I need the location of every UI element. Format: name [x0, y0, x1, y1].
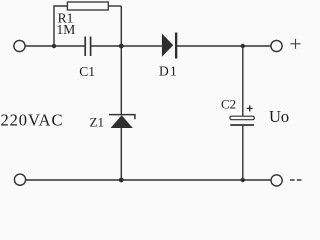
terminal output plus	[271, 40, 282, 51]
junction node output top	[241, 44, 245, 48]
wire vertical output node lower (C2 to bottom rail)	[242, 126, 244, 180]
junction node B (C1 right / zener top)	[119, 44, 124, 49]
junction node A (R1/C1 left)	[52, 44, 56, 48]
junction node B bottom rail	[119, 178, 124, 183]
wire vertical node B upper (loop to zener)	[120, 6, 122, 114]
svg-text:C1: C1	[79, 64, 95, 79]
svg-text:C2: C2	[221, 97, 236, 112]
terminal input top	[14, 40, 25, 51]
svg-text:D1: D1	[159, 64, 178, 79]
diode D1	[162, 33, 177, 59]
wire between C1 and D1	[91, 45, 162, 47]
svg-text:Z1: Z1	[90, 114, 104, 129]
terminal input bottom	[14, 174, 25, 185]
zener diode Z1	[109, 115, 135, 128]
wire vertical node B lower (zener to bottom rail)	[120, 128, 122, 180]
junction node output bottom rail	[241, 178, 245, 182]
resistor R1	[67, 2, 108, 10]
svg-text:Uo: Uo	[269, 107, 289, 126]
wire bottom rail	[26, 179, 271, 181]
wire vertical output node upper (top rail to C2)	[242, 46, 244, 116]
svg-text:1M: 1M	[57, 22, 76, 37]
minus minus sign at lower output terminal	[290, 179, 301, 181]
svg-text:220VAC: 220VAC	[1, 110, 64, 129]
plus polarity mark at C2	[247, 105, 253, 111]
wire R1 loop left riser	[54, 6, 67, 46]
capacitor C1	[85, 37, 90, 57]
wire main top left segment	[25, 45, 84, 47]
plus sign at output terminal	[291, 39, 301, 49]
wire R1 loop right link	[108, 5, 121, 7]
capacitor C2 (electrolytic)	[230, 116, 254, 125]
terminal output minus	[271, 175, 282, 186]
wire D1 to output node	[177, 45, 271, 47]
